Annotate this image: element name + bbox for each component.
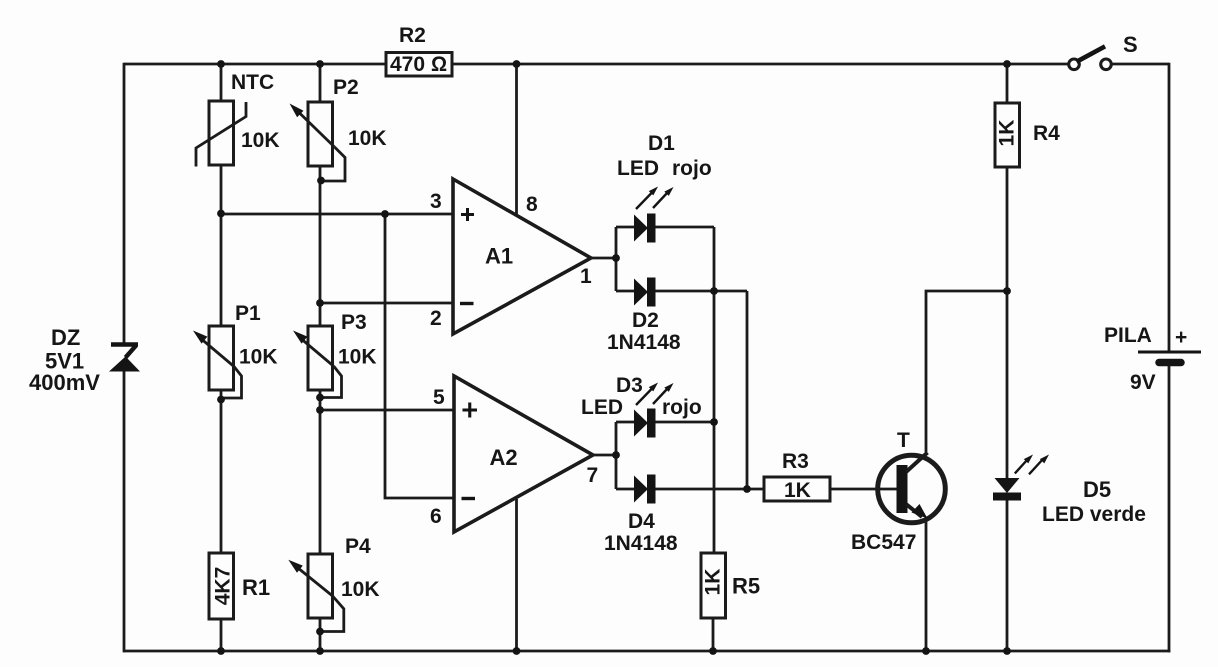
- node A2 output: [612, 451, 620, 459]
- battery PILA negative plate: [1159, 359, 1181, 367]
- zener diode DZ triangle: [109, 357, 140, 372]
- wire D2 cathode to corner x747: [655, 290, 747, 293]
- switch S right contact: [1101, 59, 1112, 70]
- wire A2 output branch vertical: [615, 422, 618, 489]
- op-amp A1 plus sign: [461, 208, 474, 221]
- resistor R4 1K body: [995, 103, 1020, 167]
- wire emitter vertical down to bottom rail: [925, 519, 928, 651]
- battery PILA positive plate: [1138, 351, 1201, 354]
- wire D4 cathode to R3: [655, 488, 764, 491]
- svg-text:LED verde: LED verde: [1042, 503, 1146, 526]
- transistor T emitter arrowhead: [912, 504, 928, 519]
- wire R4 top lead from top rail: [1006, 64, 1009, 103]
- diode D1 cathode bar: [647, 214, 656, 243]
- wire D3 cathode to bus: [655, 421, 714, 424]
- node collector / R4-D5 rail: [1003, 287, 1011, 295]
- svg-text:R2: R2: [399, 24, 426, 47]
- op-amp A2 minus sign: [462, 497, 476, 500]
- thermistor NTC body: [209, 101, 234, 165]
- node NTC-P1 junction: [217, 210, 225, 218]
- node top rail / P2: [316, 60, 324, 68]
- wire NTC bottom lead to node: [220, 165, 223, 214]
- svg-text:BC547: BC547: [851, 531, 916, 554]
- resistor R5 1K body: [701, 553, 726, 618]
- potentiometer P1 body: [209, 326, 234, 390]
- wire D2 anode lead: [616, 290, 635, 293]
- diode D4 triangle: [634, 476, 648, 503]
- wire A1 output pin 1: [591, 257, 616, 260]
- svg-text:470 Ω: 470 Ω: [390, 53, 447, 76]
- diode D5 cathode bar: [993, 493, 1021, 501]
- wire P4 bottom to bottom rail: [319, 618, 322, 651]
- zener diode DZ symbol: [111, 345, 138, 358]
- potentiometer P3 arrow: [302, 340, 334, 367]
- potentiometer P3 wiper hook: [321, 367, 342, 398]
- wire right rail upper (to battery +): [1168, 63, 1171, 352]
- diode D3 light arrows: [636, 388, 668, 405]
- wire D5 cathode to bottom rail: [1006, 500, 1009, 651]
- node A1 output: [612, 254, 620, 262]
- diode D2 cathode bar: [647, 278, 656, 307]
- node bottom rail / A2 supply: [513, 647, 521, 655]
- wire right rail lower (battery - to bottom rail): [1168, 366, 1171, 652]
- node bottom rail / R1: [217, 647, 225, 655]
- node P2-P3 junction: [316, 299, 324, 307]
- svg-text:D5: D5: [1083, 477, 1111, 502]
- transistor T base bar: [897, 465, 908, 513]
- diode D3 LED triangle: [634, 410, 648, 437]
- node top rail / R4: [1003, 60, 1011, 68]
- op-amp A2 plus sign: [463, 403, 478, 418]
- svg-text:R4: R4: [1033, 122, 1060, 145]
- node top rail / pin8 supply: [513, 60, 521, 68]
- resistor R2 470ohm body: [386, 53, 452, 77]
- svg-text:1K: 1K: [784, 479, 811, 502]
- switch S left contact: [1069, 59, 1080, 70]
- node bottom rail / emitter: [922, 647, 930, 655]
- svg-text:P1: P1: [235, 302, 261, 325]
- svg-text:3: 3: [430, 190, 442, 213]
- wire D3 anode lead: [616, 421, 635, 424]
- potentiometer P3 body: [308, 326, 333, 390]
- potentiometer P2 arrowhead: [290, 104, 304, 118]
- node D4 cathode / R3: [743, 485, 751, 493]
- svg-text:8: 8: [526, 193, 538, 216]
- svg-text:400mV: 400mV: [29, 370, 100, 395]
- diode D5 light arrows: [1015, 459, 1044, 475]
- potentiometer P4 arrowhead: [288, 560, 303, 573]
- svg-text:4K7: 4K7: [212, 567, 235, 606]
- wire top rail right segment to corner: [1112, 63, 1169, 66]
- svg-text:6: 6: [430, 505, 442, 528]
- svg-text:R5: R5: [732, 574, 760, 599]
- svg-text:1K: 1K: [996, 120, 1019, 147]
- op-amp A1 triangle: [453, 179, 591, 334]
- svg-text:S: S: [1123, 32, 1138, 57]
- op-amp A1 minus sign: [460, 302, 474, 305]
- svg-text:A1: A1: [485, 244, 513, 269]
- wire cathode bus vertical (D1/D2/D3 to R5): [713, 227, 716, 553]
- wire top rail middle segment: [452, 63, 1068, 66]
- node bottom rail / D5: [1003, 647, 1011, 655]
- node top rail / NTC: [217, 60, 225, 68]
- svg-text:D1: D1: [648, 132, 675, 155]
- potentiometer P2 arrow: [299, 113, 335, 148]
- transistor T emitter stroke: [906, 504, 922, 517]
- svg-text:P4: P4: [345, 535, 371, 558]
- svg-text:7: 7: [587, 464, 599, 487]
- node P2 wiper junction: [317, 177, 325, 185]
- wire left rail upper (top rail to zener DZ): [123, 63, 126, 343]
- diode D4 cathode bar: [647, 475, 656, 504]
- potentiometer P4 wiper hook: [321, 596, 344, 632]
- svg-text:PILA: PILA: [1104, 324, 1152, 347]
- svg-text:T: T: [897, 429, 910, 452]
- wire R5 bottom to bottom rail: [712, 618, 715, 651]
- wire R4 bottom down to D5 anode: [1006, 167, 1009, 478]
- potentiometer P1 wiper hook: [222, 367, 242, 399]
- svg-text:P2: P2: [333, 76, 359, 99]
- diode D5 LED verde triangle: [995, 478, 1020, 493]
- wire D4 anode lead: [616, 488, 635, 491]
- wire bottom rail: [124, 650, 1170, 653]
- node D3 cathode / bus: [710, 418, 718, 426]
- svg-text:1N4148: 1N4148: [607, 331, 681, 354]
- svg-text:D2: D2: [632, 309, 659, 332]
- wire left rail lower (zener DZ to bottom rail): [123, 371, 126, 652]
- wire vertical x747 (D2 node down to D4 node): [746, 291, 749, 489]
- diode D2 triangle: [634, 279, 648, 306]
- svg-text:1: 1: [580, 265, 592, 288]
- wire A2 output pin 7: [593, 454, 616, 457]
- svg-text:DZ: DZ: [51, 325, 80, 350]
- svg-text:2: 2: [430, 307, 442, 330]
- svg-text:+: +: [1175, 326, 1187, 349]
- wire A1 pin 8 supply from top rail: [515, 64, 518, 214]
- wire A1 output branch vertical: [615, 227, 618, 291]
- node P4 wiper junction: [316, 628, 324, 636]
- svg-text:D4: D4: [628, 510, 655, 533]
- diode D1 light arrows: [636, 192, 668, 209]
- potentiometer P1 arrowhead: [193, 331, 207, 344]
- switch S lever: [1079, 48, 1104, 61]
- wire D1 cathode to right corner: [655, 226, 714, 229]
- svg-text:D3: D3: [616, 374, 643, 397]
- wire R3 to transistor base: [830, 488, 898, 491]
- svg-text:10K: 10K: [338, 346, 377, 369]
- wire node B (P2/P3) to A1 inverting input (pin 2): [320, 302, 453, 305]
- op-amp A2 triangle: [454, 376, 593, 532]
- wire P2 bottom to P3 top node: [319, 166, 322, 326]
- potentiometer P2 wiper hook: [322, 147, 345, 181]
- svg-text:A2: A2: [490, 445, 518, 470]
- transistor T collector stroke: [906, 453, 928, 473]
- svg-text:9V: 9V: [1130, 371, 1156, 394]
- diode D3 cathode bar: [647, 409, 656, 438]
- diode D1 LED triangle: [634, 215, 648, 242]
- wire P3 bottom to P4 top: [319, 390, 322, 554]
- svg-text:NTC: NTC: [231, 71, 274, 94]
- node A branch to A2: [381, 210, 389, 218]
- svg-text:LED: LED: [581, 396, 623, 419]
- svg-text:LED: LED: [617, 157, 659, 180]
- svg-text:rojo: rojo: [662, 396, 702, 419]
- svg-text:R3: R3: [782, 450, 809, 473]
- wire node A to A1 noninverting input (pin 3): [221, 213, 453, 216]
- wire A2 pin 4 supply to bottom rail: [515, 499, 518, 651]
- potentiometer P2 body: [308, 102, 333, 166]
- node D1/D2 cathode join: [710, 287, 718, 295]
- svg-text:10K: 10K: [341, 578, 380, 601]
- wire P1 bottom to R1 top: [220, 390, 223, 553]
- svg-text:10K: 10K: [348, 127, 387, 150]
- svg-text:10K: 10K: [241, 129, 280, 152]
- resistor R3 1K body: [764, 477, 830, 501]
- node P3 wiper junction: [316, 394, 324, 402]
- svg-text:P3: P3: [341, 311, 367, 334]
- resistor R1 4K7 body: [209, 553, 234, 619]
- potentiometer P4 body: [308, 554, 333, 618]
- node bottom rail / R5: [709, 647, 717, 655]
- svg-text:5: 5: [433, 386, 445, 409]
- svg-text:10K: 10K: [239, 346, 278, 369]
- thermistor NTC diagonal symbol: [196, 102, 246, 167]
- wire R1 bottom to bottom rail: [220, 619, 223, 651]
- svg-text:1K: 1K: [702, 569, 725, 596]
- node bottom rail / P4: [316, 647, 324, 655]
- wire node NTC/P1 to P1 top: [220, 214, 223, 326]
- potentiometer P3 arrowhead: [293, 331, 307, 344]
- wire D1 anode lead: [616, 226, 635, 229]
- wire P2 top lead: [319, 64, 322, 102]
- wire NTC top lead: [220, 64, 223, 101]
- svg-text:1N4148: 1N4148: [604, 532, 678, 555]
- svg-text:R1: R1: [242, 575, 270, 600]
- wire top rail left segment: [124, 63, 386, 66]
- potentiometer P4 arrow: [298, 568, 333, 596]
- transistor T BC547 circle: [878, 455, 946, 523]
- wire node A down-feed to A2 inverting input (pin 6): [385, 214, 454, 498]
- wire node C (P3/P4) to A2 noninverting input (pin 5): [320, 409, 454, 412]
- svg-text:rojo: rojo: [672, 157, 712, 180]
- node P1 wiper junction: [217, 396, 225, 404]
- wire collector vertical up and over to R4/D5 rail: [926, 291, 1007, 452]
- node P3-P4 junction: [316, 406, 324, 414]
- potentiometer P1 arrow: [202, 340, 234, 367]
